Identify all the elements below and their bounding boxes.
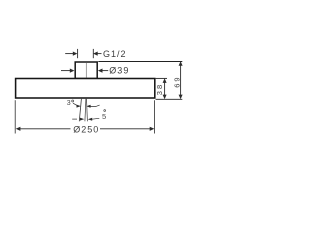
extension line from plate bottom to 38/69 dims (156, 98, 183, 100)
shower plate (side view Ø250 disc) (16, 79, 155, 99)
extension line from plate top to 38 dim (156, 77, 167, 79)
nozzle lower dim arrows (72, 118, 99, 121)
dimension Ø250 (16, 127, 155, 131)
dimension Ø39 (61, 69, 108, 73)
nozzle upper dim arrows (77, 105, 100, 108)
svg-text:5: 5 (102, 112, 106, 121)
nozzle spray line A (79, 99, 81, 122)
dimension G1/2 (65, 49, 101, 58)
dimension 69 (total height) (179, 61, 183, 99)
nozzle spray line C (86, 99, 89, 122)
svg-text:38: 38 (155, 83, 164, 95)
svg-text:Ø250: Ø250 (73, 124, 99, 134)
svg-text:G1/2: G1/2 (103, 49, 127, 59)
extension line plate left to Ø250 (14, 100, 16, 133)
svg-text:3: 3 (67, 100, 71, 107)
extension line plate right to Ø250 (154, 100, 156, 133)
connector box (G1/2 thread housing) (75, 62, 97, 79)
dimension 38 (plate thickness) (163, 78, 167, 99)
svg-text:Ø39: Ø39 (109, 66, 129, 76)
extension line from connector top to 69 dim (98, 61, 182, 63)
nozzle spray line B (85, 99, 86, 122)
svg-text:69: 69 (173, 75, 182, 87)
